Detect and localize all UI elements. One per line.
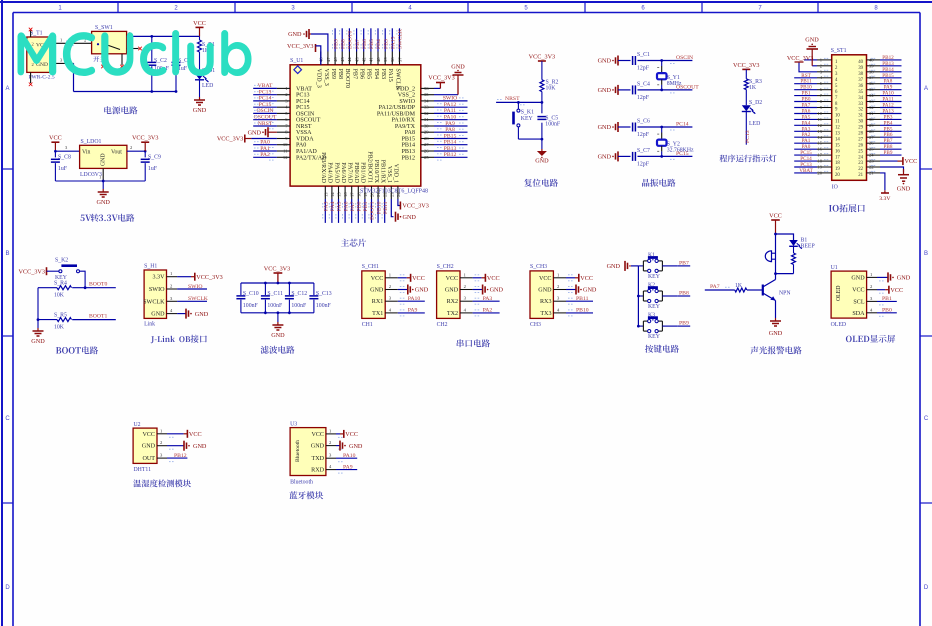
svg-text:PB14: PB14: [401, 143, 415, 149]
svg-text:PB9: PB9: [333, 39, 339, 49]
svg-text:15: 15: [817, 141, 822, 146]
svg-text:C: C: [924, 416, 929, 422]
svg-text:PC14: PC14: [259, 96, 272, 102]
svg-text:GND: GND: [607, 263, 621, 270]
svg-text:K2: K2: [648, 283, 655, 289]
svg-text:12pF: 12pF: [637, 95, 650, 101]
svg-text:18: 18: [817, 159, 822, 164]
svg-text:GND: GND: [445, 288, 459, 294]
svg-text:PA9: PA9: [408, 308, 418, 314]
svg-text:K3: K3: [648, 313, 655, 319]
svg-text:PB6: PB6: [362, 39, 368, 49]
svg-text:SWIO: SWIO: [188, 284, 203, 290]
svg-text:44: 44: [347, 57, 352, 62]
svg-text:GND: GND: [598, 58, 612, 65]
svg-text:BOOT0: BOOT0: [344, 69, 350, 89]
svg-text:S_K2: S_K2: [55, 258, 68, 264]
svg-text:VCC_3V3: VCC_3V3: [132, 135, 158, 142]
svg-text:DHT11: DHT11: [134, 467, 152, 473]
svg-text:35: 35: [424, 92, 429, 97]
svg-text:12: 12: [817, 123, 822, 128]
svg-text:OUT: OUT: [142, 456, 155, 462]
svg-text:40: 40: [858, 60, 863, 65]
svg-text:GND: GND: [598, 124, 612, 131]
svg-text:12pF: 12pF: [637, 66, 650, 72]
svg-text:GND: GND: [897, 275, 911, 282]
svg-text:47: 47: [326, 57, 331, 62]
svg-text:21: 21: [858, 173, 863, 178]
svg-text:19: 19: [817, 165, 822, 170]
svg-text:S_C1: S_C1: [637, 52, 650, 58]
svg-text:S_T1: S_T1: [30, 31, 43, 37]
svg-text:PC13: PC13: [296, 93, 310, 99]
svg-text:PB0: PB0: [357, 201, 363, 211]
svg-text:SWCLK: SWCLK: [143, 299, 165, 305]
svg-text:13: 13: [817, 129, 822, 134]
svg-text:VCC: VCC: [49, 135, 62, 142]
svg-text:34: 34: [424, 98, 429, 103]
svg-text:KEY: KEY: [648, 304, 661, 310]
svg-text:PA10: PA10: [444, 115, 457, 121]
svg-text:20: 20: [835, 173, 840, 178]
svg-text:GND: GND: [897, 186, 911, 193]
svg-text:26: 26: [424, 149, 429, 154]
svg-text:RX2: RX2: [447, 299, 459, 305]
svg-text:GND: GND: [248, 129, 262, 136]
svg-text:46: 46: [333, 57, 338, 62]
svg-text:26: 26: [858, 143, 863, 148]
svg-text:PB2/BOOT1: PB2/BOOT1: [366, 151, 372, 183]
svg-text:29: 29: [858, 126, 863, 131]
svg-text:GND: GND: [415, 287, 429, 294]
svg-text:S_CH1: S_CH1: [362, 264, 379, 270]
svg-text:VCC_3V3: VCC_3V3: [19, 268, 45, 275]
svg-text:VCC_3V3: VCC_3V3: [264, 266, 290, 273]
svg-text:1uF: 1uF: [148, 166, 158, 172]
svg-text:PB11: PB11: [576, 296, 589, 302]
svg-text:PA2: PA2: [260, 152, 270, 158]
svg-text:U3: U3: [290, 422, 297, 428]
svg-text:PB13: PB13: [401, 149, 415, 155]
svg-text:PA9: PA9: [343, 464, 353, 470]
svg-text:39: 39: [858, 66, 863, 71]
svg-text:PB11: PB11: [383, 201, 389, 214]
svg-text:VSS_3: VSS_3: [323, 69, 329, 86]
svg-text:PB7: PB7: [351, 69, 357, 80]
svg-text:VSS_2: VSS_2: [398, 93, 415, 99]
svg-text:PB8: PB8: [340, 39, 346, 49]
svg-text:PA12/USB/DP: PA12/USB/DP: [379, 105, 416, 111]
svg-text:GND: GND: [31, 338, 45, 345]
svg-text:GND: GND: [598, 87, 612, 94]
svg-text:NPN: NPN: [779, 291, 791, 297]
svg-text:VCC_3V3: VCC_3V3: [196, 274, 222, 281]
svg-text:SWIO: SWIO: [149, 287, 165, 293]
svg-text:GND: GND: [195, 311, 209, 318]
svg-text:CH1: CH1: [362, 322, 373, 328]
svg-text:KEY: KEY: [521, 116, 534, 122]
svg-text:S_ST1: S_ST1: [831, 48, 847, 54]
svg-text:16: 16: [835, 149, 840, 154]
svg-text:2: 2: [130, 145, 132, 150]
svg-text:VCC_3V3: VCC_3V3: [787, 55, 813, 62]
svg-text:10: 10: [835, 114, 840, 119]
svg-text:SCL: SCL: [853, 299, 864, 305]
svg-text:PB11/RX: PB11/RX: [380, 160, 386, 184]
svg-text:30: 30: [424, 124, 429, 129]
svg-text:VSSA: VSSA: [296, 130, 312, 136]
svg-text:22: 22: [858, 167, 863, 172]
svg-text:11: 11: [818, 117, 823, 122]
svg-text:SWCLK: SWCLK: [394, 69, 400, 91]
svg-text:GND: GND: [151, 312, 165, 318]
svg-text:GND: GND: [535, 158, 549, 165]
svg-text:100nF: 100nF: [267, 303, 283, 309]
svg-text:PB7: PB7: [355, 39, 361, 49]
svg-text:PA5: PA5: [337, 201, 343, 211]
svg-text:PA15: PA15: [387, 69, 393, 82]
svg-text:VDD_1: VDD_1: [393, 164, 399, 183]
svg-text:1K: 1K: [749, 85, 757, 91]
svg-text:VCC: VCC: [852, 288, 865, 294]
svg-text:38: 38: [390, 57, 395, 62]
svg-text:28: 28: [424, 136, 429, 141]
svg-text:GND: GND: [851, 275, 865, 281]
svg-text:PC14: PC14: [296, 99, 310, 105]
svg-text:33: 33: [424, 105, 429, 110]
svg-text:24: 24: [858, 155, 863, 160]
svg-text:43: 43: [354, 57, 359, 62]
svg-text:PB5: PB5: [366, 69, 372, 80]
svg-text:Bluetooth: Bluetooth: [290, 479, 313, 485]
svg-text:8MHz: 8MHz: [667, 81, 682, 87]
svg-text:VCC_3V3: VCC_3V3: [217, 136, 243, 143]
svg-text:LED: LED: [202, 83, 213, 89]
svg-text:VCC: VCC: [905, 158, 918, 165]
svg-text:S_C4: S_C4: [637, 81, 650, 87]
svg-text:PA15: PA15: [391, 36, 397, 49]
svg-text:18: 18: [835, 161, 840, 166]
svg-text:10: 10: [817, 111, 822, 116]
svg-text:VCC_3V3: VCC_3V3: [428, 75, 454, 82]
svg-text:BOOT0: BOOT0: [89, 282, 107, 288]
svg-text:S_C6: S_C6: [637, 119, 650, 125]
svg-text:PA2: PA2: [483, 308, 493, 314]
svg-text:VCC: VCC: [580, 275, 593, 282]
svg-text:C: C: [5, 416, 10, 422]
svg-text:19: 19: [835, 167, 840, 172]
svg-text:PB10: PB10: [376, 201, 382, 214]
svg-text:VSS_1: VSS_1: [386, 166, 392, 183]
svg-text:34: 34: [858, 96, 863, 101]
svg-text:RXD: RXD: [311, 468, 324, 474]
svg-text:30: 30: [858, 120, 863, 125]
svg-text:2: 2: [32, 62, 34, 67]
svg-text:17: 17: [350, 192, 355, 197]
svg-text:10K: 10K: [54, 324, 65, 330]
svg-text:OSCOUT: OSCOUT: [254, 115, 277, 121]
svg-text:PB3: PB3: [383, 39, 389, 49]
svg-text:PB14: PB14: [444, 140, 457, 146]
svg-text:PB10: PB10: [576, 308, 589, 314]
svg-text:A: A: [924, 86, 928, 92]
svg-text:VCC: VCC: [371, 276, 384, 282]
svg-text:IO: IO: [832, 184, 838, 190]
svg-text:VCC: VCC: [487, 275, 500, 282]
svg-text:40: 40: [376, 57, 381, 62]
svg-text:33: 33: [858, 102, 863, 107]
svg-text:17: 17: [817, 153, 822, 158]
svg-text:PB12: PB12: [444, 152, 457, 158]
svg-text:23: 23: [858, 161, 863, 166]
svg-text:12pF: 12pF: [637, 132, 650, 138]
svg-text:VCC_3V3: VCC_3V3: [402, 203, 428, 210]
svg-text:VCC_3V3: VCC_3V3: [529, 54, 555, 61]
svg-text:25: 25: [858, 149, 863, 154]
svg-text:SWIO: SWIO: [399, 99, 415, 105]
svg-text:BOOT0: BOOT0: [348, 31, 354, 49]
svg-text:CH3: CH3: [530, 322, 541, 328]
svg-text:S_LDO1: S_LDO1: [81, 139, 102, 145]
svg-text:S_K1: S_K1: [521, 110, 534, 116]
svg-text:14: 14: [835, 137, 840, 142]
svg-text:35: 35: [858, 90, 863, 95]
svg-text:GND: GND: [598, 154, 612, 161]
svg-text:VCC_3V3: VCC_3V3: [287, 43, 313, 50]
svg-text:Vout: Vout: [111, 150, 122, 156]
svg-text:S_C12: S_C12: [291, 291, 307, 297]
svg-text:GND: GND: [193, 443, 207, 450]
svg-text:13: 13: [323, 192, 328, 197]
svg-text:10: 10: [283, 142, 288, 147]
svg-text:S_CH3: S_CH3: [530, 264, 547, 270]
svg-text:VBAT: VBAT: [296, 86, 312, 92]
svg-text:PB5: PB5: [369, 39, 375, 49]
svg-text:PB9: PB9: [884, 150, 893, 156]
svg-text:GND: GND: [288, 31, 302, 38]
svg-text:OLED: OLED: [831, 322, 846, 328]
svg-text:100nF: 100nF: [316, 303, 332, 309]
svg-text:12: 12: [835, 126, 840, 131]
svg-text:U2: U2: [134, 422, 141, 428]
svg-text:GND: GND: [311, 444, 325, 450]
svg-text:GND: GND: [451, 64, 465, 71]
svg-text:B: B: [924, 251, 928, 257]
svg-text:S_C10: S_C10: [243, 291, 259, 297]
svg-text:16: 16: [343, 192, 348, 197]
svg-text:GND: GND: [349, 443, 363, 450]
svg-text:VCC: VCC: [412, 275, 425, 282]
svg-text:32: 32: [858, 108, 863, 113]
svg-text:PA3/RX/AD: PA3/RX/AD: [320, 152, 326, 184]
svg-text:OSCIN: OSCIN: [256, 108, 273, 114]
svg-text:OSCIN: OSCIN: [296, 111, 315, 117]
svg-text:PA9: PA9: [445, 121, 455, 127]
svg-text:U1: U1: [831, 265, 838, 271]
svg-text:STM32F103C8T6_LQFP48: STM32F103C8T6_LQFP48: [360, 189, 428, 195]
svg-text:S_C9: S_C9: [148, 155, 161, 161]
svg-text:PA10: PA10: [343, 453, 356, 459]
svg-text:TX1: TX1: [372, 311, 383, 317]
svg-text:PB15: PB15: [401, 137, 415, 143]
svg-text:12pF: 12pF: [637, 161, 650, 167]
svg-text:100nF: 100nF: [545, 122, 561, 128]
svg-text:KEY: KEY: [648, 334, 661, 340]
svg-text:PA7: PA7: [350, 201, 356, 211]
svg-text:VCC: VCC: [769, 213, 782, 220]
svg-text:GND: GND: [769, 330, 783, 337]
svg-text:1: 1: [99, 175, 101, 180]
svg-text:BOOT1: BOOT1: [89, 314, 107, 320]
svg-text:37: 37: [397, 57, 402, 62]
svg-text:3.3V: 3.3V: [152, 275, 165, 281]
svg-text:PA0: PA0: [260, 140, 270, 146]
svg-text:PA1/AD: PA1/AD: [296, 149, 317, 155]
svg-text:1uF: 1uF: [178, 66, 188, 72]
svg-text:PA0: PA0: [296, 143, 306, 149]
svg-text:PB8: PB8: [337, 69, 343, 80]
svg-text:S_D2: S_D2: [749, 100, 762, 106]
svg-text:GND: GND: [538, 288, 552, 294]
svg-text:PB0: PB0: [882, 308, 892, 314]
svg-text:41: 41: [369, 57, 374, 62]
svg-text:GND: GND: [193, 107, 207, 114]
svg-text:NRST: NRST: [258, 121, 273, 127]
svg-text:20: 20: [817, 170, 822, 175]
svg-text:PB9: PB9: [679, 321, 689, 327]
svg-text:S_H1: S_H1: [144, 264, 157, 270]
svg-text:32.768KHz: 32.768KHz: [667, 148, 694, 154]
svg-text:PB9: PB9: [330, 69, 336, 80]
svg-text:31: 31: [858, 114, 863, 119]
svg-text:BEEP: BEEP: [801, 244, 815, 250]
svg-text:PA8: PA8: [405, 130, 415, 136]
svg-text:10K: 10K: [546, 86, 557, 92]
svg-text:Vin: Vin: [82, 150, 90, 156]
svg-text:29: 29: [424, 130, 429, 135]
svg-text:PB12: PB12: [401, 155, 415, 161]
svg-text:S_C13: S_C13: [316, 291, 332, 297]
svg-text:RX3: RX3: [540, 299, 552, 305]
svg-text:Link: Link: [144, 322, 155, 328]
svg-text:PA9/TX: PA9/TX: [395, 124, 416, 130]
svg-text:SWCLK: SWCLK: [188, 296, 209, 302]
svg-text:14: 14: [817, 135, 822, 140]
svg-text:OSCOUT: OSCOUT: [296, 118, 321, 124]
svg-text:KEY: KEY: [648, 274, 661, 280]
svg-text:D: D: [924, 585, 929, 591]
svg-text:VBAT: VBAT: [258, 83, 273, 89]
svg-text:PA11/USB/DM: PA11/USB/DM: [377, 111, 416, 117]
svg-text:VDD_3: VDD_3: [316, 69, 322, 88]
svg-text:36: 36: [424, 86, 429, 91]
svg-text:10K: 10K: [54, 293, 65, 299]
svg-text:OSCIN: OSCIN: [676, 55, 693, 61]
svg-text:PA7: PA7: [710, 284, 720, 290]
svg-text:PB1: PB1: [882, 296, 892, 302]
svg-text:PB7: PB7: [679, 260, 689, 266]
svg-text:PA10: PA10: [408, 296, 421, 302]
svg-text:PA6: PA6: [343, 201, 349, 211]
svg-text:VCC: VCC: [890, 287, 903, 294]
svg-text:GND: GND: [403, 214, 417, 221]
svg-text:S_C11: S_C11: [267, 291, 283, 297]
svg-text:CH2: CH2: [437, 322, 448, 328]
svg-text:11: 11: [835, 120, 840, 125]
svg-text:1K: 1K: [735, 283, 743, 289]
svg-text:28: 28: [858, 132, 863, 137]
svg-text:OLED: OLED: [836, 286, 842, 301]
svg-text:PC13: PC13: [259, 90, 272, 96]
svg-text:PB4: PB4: [376, 39, 382, 49]
svg-text:PC15: PC15: [296, 105, 310, 111]
svg-text:Bluetooth: Bluetooth: [295, 440, 301, 462]
svg-text:14: 14: [330, 192, 335, 197]
svg-text:VBAT: VBAT: [799, 168, 813, 174]
svg-text:PA3: PA3: [324, 201, 330, 211]
svg-text:TXD: TXD: [311, 456, 324, 462]
svg-text:PA4/AD: PA4/AD: [327, 162, 333, 183]
svg-text:S_R4: S_R4: [54, 281, 67, 287]
svg-text:PA12: PA12: [444, 102, 457, 108]
svg-text:VCC: VCC: [189, 431, 202, 438]
svg-text:31: 31: [424, 117, 429, 122]
svg-text:VCC: VCC: [446, 276, 459, 282]
svg-text:VCC: VCC: [539, 276, 552, 282]
svg-text:3.3V: 3.3V: [879, 196, 891, 202]
svg-text:GND: GND: [96, 199, 110, 206]
svg-text:PB6: PB6: [359, 69, 365, 80]
svg-text:RX1: RX1: [372, 299, 384, 305]
svg-text:GND: GND: [370, 288, 384, 294]
svg-text:VCC: VCC: [345, 431, 358, 438]
svg-text:PA8: PA8: [445, 127, 455, 133]
svg-text:S_C8: S_C8: [58, 155, 71, 161]
svg-text:GND: GND: [805, 37, 819, 44]
svg-text:GND: GND: [490, 287, 504, 294]
svg-text:S_C2: S_C2: [154, 58, 167, 64]
svg-text:PA3: PA3: [483, 296, 493, 302]
svg-text:PB3: PB3: [380, 69, 386, 80]
svg-text:100nF: 100nF: [291, 303, 307, 309]
svg-text:PB4: PB4: [373, 69, 379, 80]
svg-text:PA4: PA4: [330, 201, 336, 211]
svg-text:PWR-C-2.5: PWR-C-2.5: [29, 75, 55, 81]
svg-text:36: 36: [858, 84, 863, 89]
svg-text:32: 32: [424, 111, 429, 116]
svg-text:PC13: PC13: [745, 130, 751, 143]
svg-text:PB1: PB1: [363, 201, 369, 211]
svg-text:TX2: TX2: [447, 311, 458, 317]
svg-text:PB8: PB8: [679, 291, 689, 297]
svg-text:27: 27: [424, 142, 429, 147]
svg-text:1uF: 1uF: [58, 166, 68, 172]
svg-text:PA11: PA11: [444, 108, 456, 114]
svg-text:A: A: [5, 86, 9, 92]
svg-text:1: 1: [60, 38, 62, 43]
svg-text:S_CH2: S_CH2: [437, 264, 454, 270]
svg-text:PB13: PB13: [444, 146, 457, 152]
svg-text:S_SW1: S_SW1: [95, 25, 113, 31]
svg-text:16: 16: [817, 147, 822, 152]
svg-text:SWIO: SWIO: [443, 96, 458, 102]
svg-text:GND: GND: [583, 287, 597, 294]
svg-text:PB1/AD: PB1/AD: [360, 162, 366, 184]
svg-text:GND: GND: [101, 153, 107, 166]
svg-text:VDDA: VDDA: [296, 137, 314, 143]
svg-text:VCC: VCC: [311, 432, 324, 438]
svg-text:BOOT1: BOOT1: [370, 201, 376, 219]
